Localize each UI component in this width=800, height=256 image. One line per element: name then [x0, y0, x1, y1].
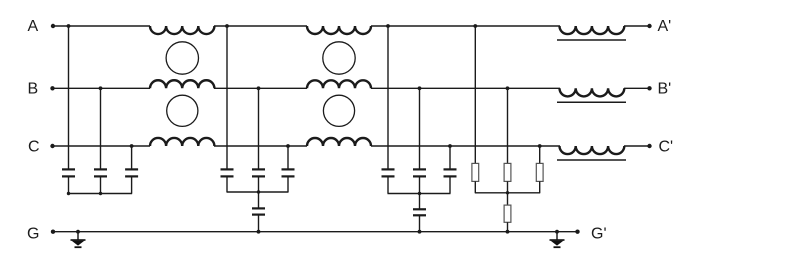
capacitor CX2c — [282, 169, 295, 176]
wire line C segment 2 — [214, 145, 307, 147]
inductor L3c output winding C — [560, 146, 625, 154]
capacitor CX1a — [62, 169, 75, 176]
wire CX2c to star bar — [287, 176, 289, 192]
wire drop from A to resistor R1 — [474, 26, 476, 163]
inductor L1a choke 1 winding A — [150, 26, 214, 34]
inductor L3a output winding A — [560, 26, 625, 34]
wire drop from C to capacitor CX3c — [449, 146, 451, 169]
wire star bar N3 to capacitor CY2 — [419, 194, 421, 210]
wire CX1a to star bar — [68, 176, 70, 193]
junction B-R2 — [506, 86, 510, 90]
terminal node G — [51, 230, 55, 234]
junction A-CX1a — [67, 24, 71, 28]
capacitor CX3b — [413, 169, 426, 176]
wire line C segment 1 — [52, 145, 150, 147]
coupling circle choke 1 between B and C — [167, 95, 198, 126]
svg-text:A: A — [28, 18, 39, 35]
wire star bar N2 to capacitor CY1 — [258, 192, 260, 208]
wire CY2 to ground line — [419, 215, 421, 231]
svg-text:A': A' — [658, 18, 672, 35]
capacitor CX2a — [221, 169, 234, 176]
junction G-ground-right — [555, 230, 559, 234]
svg-text:B': B' — [658, 81, 672, 98]
wire drop from B to capacitor CX2b — [258, 88, 260, 169]
wire CX3b to star bar — [419, 176, 421, 193]
wire star bar node N2 — [227, 191, 289, 193]
junction N1-CX1a — [67, 192, 70, 195]
wire drop from B to capacitor CX3b — [419, 88, 421, 169]
inductor L3b output winding B — [560, 88, 625, 96]
junction G-ground-left — [76, 230, 80, 234]
wire CY1 to ground line — [258, 215, 260, 232]
core line of inductor L3c — [557, 159, 626, 161]
wire star bar node N1 — [68, 193, 132, 195]
svg-text:C: C — [28, 138, 40, 155]
junction A-CX2a — [225, 24, 229, 28]
capacitor CX1b — [94, 169, 107, 176]
wire drop from B to capacitor CX1b — [100, 88, 102, 169]
svg-text:C': C' — [659, 138, 674, 155]
wire line A segment 2 — [214, 25, 307, 27]
terminal node C — [50, 144, 54, 148]
wire line A segment 3 — [371, 25, 560, 27]
wire drop from C to resistor R3 — [539, 146, 541, 163]
coupling circle choke 2 between B and C — [323, 95, 354, 126]
wire line B segment 4 — [624, 87, 650, 89]
coupling circle choke 2 between A and B — [323, 42, 355, 74]
ground symbol right — [550, 232, 565, 248]
coupling circle choke 1 between A and B — [166, 42, 198, 74]
terminal node A — [51, 24, 55, 28]
capacitor CX3c — [444, 169, 457, 176]
resistor R4 to ground — [504, 205, 511, 222]
inductor L1c choke 1 winding C — [150, 138, 214, 146]
junction A-CX3a — [386, 24, 390, 28]
junction N2-CY1 — [257, 190, 260, 193]
junction G-CY2 — [418, 230, 422, 234]
wire star bar N4 to resistor R4 — [507, 193, 509, 205]
core line of inductor L3a — [557, 39, 626, 41]
resistor R2 — [504, 163, 511, 181]
junction G-CY1 — [257, 230, 261, 234]
resistor R1 — [472, 163, 479, 181]
inductor L2b choke 2 winding B — [307, 80, 371, 88]
wire line B segment 1 — [52, 87, 150, 89]
wire R3 to star bar — [539, 181, 541, 192]
wire ground line G — [53, 231, 578, 233]
junction N1-CX1b — [99, 192, 102, 195]
terminal node C2 — [647, 144, 651, 148]
junction C-CX1c — [130, 144, 134, 148]
wire line C segment 4 — [624, 145, 650, 147]
capacitor CX2b — [252, 169, 265, 176]
terminal node A2 — [647, 24, 651, 28]
terminal node B — [50, 86, 54, 90]
junction N3-CY2 — [418, 192, 421, 195]
junction A-R1 — [473, 24, 477, 28]
junction C-R3 — [538, 144, 542, 148]
wire star bar node N3 — [388, 193, 451, 195]
wire drop from A to capacitor CX3a — [387, 26, 389, 169]
resistor R3 — [536, 163, 543, 181]
svg-text:G': G' — [591, 225, 607, 242]
wire star bar node N4 — [475, 192, 540, 194]
wire drop from B to resistor R2 — [507, 88, 509, 163]
inductor L2a choke 2 winding A — [307, 26, 371, 34]
wire drop from A to capacitor CX1a — [68, 26, 70, 169]
wire drop from A to capacitor CX2a — [226, 26, 228, 169]
wire CX3c to star bar — [449, 176, 451, 193]
ground symbol left — [71, 232, 86, 248]
wire drop from C to capacitor CX1c — [131, 146, 133, 169]
wire R1 to star bar — [474, 181, 476, 192]
capacitor CY1 to ground — [252, 208, 265, 214]
junction C-CX3c — [448, 144, 452, 148]
terminal node B2 — [647, 86, 651, 90]
wire CX3a to star bar — [387, 176, 389, 193]
junction C-CX2c — [286, 144, 290, 148]
wire CX1b to star bar — [100, 176, 102, 193]
wire drop from C to capacitor CX2c — [287, 146, 289, 169]
wire line A segment 1 — [53, 25, 151, 27]
capacitor CX1c — [125, 169, 138, 176]
wire CX2a to star bar — [226, 176, 228, 192]
terminal node G2 — [575, 230, 579, 234]
wire line B segment 2 — [214, 87, 307, 89]
capacitor CX3a — [382, 169, 395, 176]
junction B-CX2b — [257, 86, 261, 90]
junction B-CX3b — [418, 86, 422, 90]
junction N4-R4 — [506, 191, 509, 194]
wire R2 to star bar — [507, 181, 509, 192]
wire CX1c to star bar — [131, 176, 133, 193]
wire line C segment 3 — [371, 145, 560, 147]
junction G-R4 — [506, 230, 510, 234]
inductor L1b choke 1 winding B — [150, 80, 214, 88]
wire line B segment 3 — [371, 87, 560, 89]
core line of inductor L3b — [557, 101, 626, 103]
svg-text:G: G — [27, 226, 39, 243]
wire R4 to ground line — [507, 222, 509, 231]
svg-text:B: B — [28, 81, 39, 98]
wire CX2b to star bar — [258, 176, 260, 192]
junction B-CX1b — [99, 86, 103, 90]
wire line A segment 4 — [624, 25, 650, 27]
inductor L2c choke 2 winding C — [307, 138, 371, 146]
capacitor CY2 to ground — [413, 209, 426, 215]
